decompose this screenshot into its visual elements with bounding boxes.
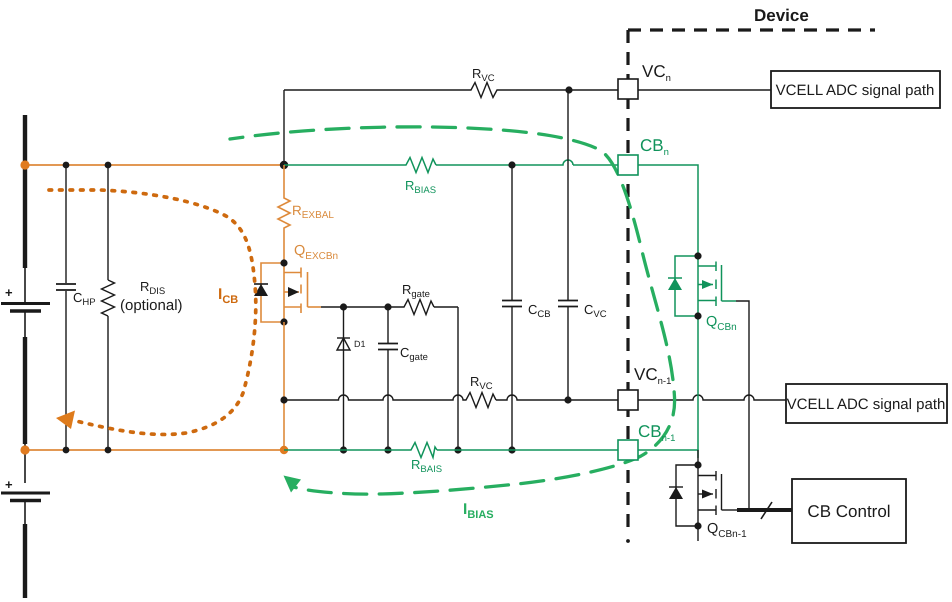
node Q_CBn drain <box>694 252 701 259</box>
pin square CBn-1 <box>618 440 638 460</box>
device boundary dashed vertical <box>626 30 629 531</box>
box: CB Control <box>792 479 906 543</box>
node Q_EXCBn drain <box>280 259 287 266</box>
Q_EXCBn arrow <box>288 287 299 297</box>
capacitor Cgate <box>378 307 398 450</box>
svg-text:VCELL ADC signal path: VCELL ADC signal path <box>776 82 935 99</box>
wire: green RBIAS line <box>284 160 618 165</box>
svg-text:QCBn: QCBn <box>706 314 737 333</box>
battery cell B1 <box>1 304 50 312</box>
wire: black drop from VC line to orange junction <box>283 90 285 165</box>
wire: CBn-1 pin to right riser <box>638 450 698 458</box>
node Q_CBn source <box>694 312 701 319</box>
svg-text:Device: Device <box>754 6 809 25</box>
wire: VCn-1 sense line with hops <box>284 395 618 400</box>
resistor RVC top zigzag <box>468 83 498 98</box>
svg-text:CBn: CBn <box>640 136 669 158</box>
svg-text:IBIAS: IBIAS <box>463 501 494 521</box>
svg-text:CCB: CCB <box>528 302 551 320</box>
Q_CBn-1 arrow <box>702 490 713 499</box>
svg-text:RBAIS: RBAIS <box>411 457 442 475</box>
node: orange junction top rail <box>20 160 29 169</box>
resistor RBIAS zigzag <box>404 158 436 173</box>
current loop I_CB (orange dotted) <box>49 190 256 434</box>
diode D1 <box>337 307 350 450</box>
capacitor CVC <box>558 90 578 400</box>
svg-text:QEXCBn: QEXCBn <box>294 243 338 262</box>
svg-text:CB Control: CB Control <box>807 502 890 521</box>
wire: bottom orange rail (cell n-) <box>25 449 284 451</box>
pin square VCn <box>618 79 638 99</box>
wire: Rgate right leg down <box>457 307 459 450</box>
svg-text:VCELL ADC signal path: VCELL ADC signal path <box>787 396 946 413</box>
node CHP bottom <box>63 447 70 454</box>
wire: VCn pin to VCELL ADC box <box>638 89 771 91</box>
svg-text:RBIAS: RBIAS <box>405 178 436 196</box>
battery cell B2 <box>1 493 50 501</box>
svg-text:RVC: RVC <box>470 374 493 392</box>
wire: VCn-1 pin to VCELL box with hops <box>638 395 786 400</box>
node: orange junction bottom rail <box>20 445 29 454</box>
svg-text:VCn: VCn <box>642 62 671 84</box>
current loop I_BIAS (green dashed) <box>230 127 675 494</box>
svg-text:D1: D1 <box>354 339 366 349</box>
transistor Q_CBn (green internal FET) <box>675 256 736 450</box>
device boundary end dot <box>626 539 630 543</box>
node RDIS top <box>105 162 112 169</box>
svg-text:CVC: CVC <box>584 302 607 320</box>
node Q_CBn-1 source <box>694 522 701 529</box>
svg-text:(optional): (optional) <box>120 297 183 314</box>
node Cgate bottom <box>384 446 391 453</box>
node Rgate leg bottom <box>454 446 461 453</box>
wire: top orange rail (cell n+) <box>25 164 284 166</box>
svg-text:ICB: ICB <box>218 286 238 306</box>
node: orange/green/black junction <box>280 161 288 169</box>
wire: Q_CBn gate to control riser <box>736 301 749 510</box>
svg-text:Cgate: Cgate <box>400 345 428 363</box>
svg-text:Rgate: Rgate <box>402 282 430 300</box>
svg-text:RVC: RVC <box>472 66 495 84</box>
svg-text:+: + <box>5 285 13 300</box>
pin square VCn-1 <box>618 390 638 410</box>
svg-text:+: + <box>5 477 13 492</box>
svg-text:CHP: CHP <box>73 290 96 308</box>
wire: orange source down to bottom rail <box>283 322 285 450</box>
node Q_CBn-1 drain <box>694 461 701 468</box>
resistor RBAIS zigzag <box>409 443 437 458</box>
svg-text:REXBAL: REXBAL <box>292 203 334 221</box>
device boundary dashed top <box>628 28 875 31</box>
node CCB bottom <box>508 446 515 453</box>
node VCn-1 line start <box>280 396 287 403</box>
resistor REXBAL <box>278 165 290 263</box>
resistor RDIS <box>102 165 115 450</box>
svg-text:RDIS: RDIS <box>140 279 165 297</box>
Q_CBn-1 body diode symbol <box>669 486 683 488</box>
transistor Q_EXCBn (orange PFET with body diode) <box>261 263 321 322</box>
node RDIS bottom <box>105 447 112 454</box>
capacitor CCB <box>502 165 522 450</box>
wire: green CBn pin to right riser <box>638 165 698 256</box>
Q_EXCBn body diode symbol <box>254 283 268 285</box>
transistor Q_CBn-1 (black internal FET) <box>676 450 737 541</box>
node D1 gate <box>340 303 347 310</box>
resistor RVC bottom zigzag <box>464 393 496 408</box>
wire: green RBAIS line <box>284 449 618 451</box>
wire: top VC line to VCn <box>284 89 618 91</box>
battery stack rail <box>23 115 27 598</box>
node: orange bottom rail junction <box>280 446 288 454</box>
node CVC top <box>565 86 572 93</box>
Q_CBn arrow <box>702 280 713 289</box>
node Q_EXCBn source <box>280 318 287 325</box>
node D1 bottom <box>340 446 347 453</box>
wire: gate line from Q_EXCBn <box>321 306 458 308</box>
I_BIAS arrowhead <box>284 476 302 493</box>
bus width slash <box>761 502 772 519</box>
Q_CBn body diode symbol <box>668 277 682 279</box>
wire: CB control bus (thick) <box>737 508 792 512</box>
box: VCELL ADC signal path (bottom) <box>786 384 947 423</box>
capacitor CHP <box>56 165 76 450</box>
node CVC bottom <box>564 396 571 403</box>
box: VCELL ADC signal path (top) <box>771 71 940 108</box>
node CHP top <box>63 162 70 169</box>
svg-text:QCBn-1: QCBn-1 <box>707 521 747 540</box>
pin square CBn <box>618 155 638 175</box>
node CCB top <box>508 161 515 168</box>
svg-text:VCn-1: VCn-1 <box>634 365 671 387</box>
I_CB arrowhead <box>56 411 75 430</box>
node Cgate gate <box>384 303 391 310</box>
resistor Rgate zigzag <box>402 300 434 315</box>
